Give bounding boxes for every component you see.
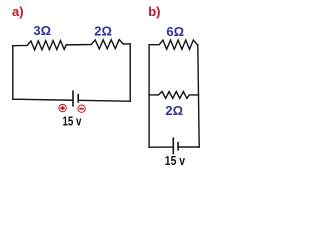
svg-text:15 v: 15 v: [63, 114, 82, 128]
svg-text:6Ω: 6Ω: [166, 24, 184, 39]
svg-text:2Ω: 2Ω: [165, 103, 183, 118]
svg-text:b): b): [148, 4, 160, 19]
svg-text:15 v: 15 v: [165, 154, 185, 166]
svg-text:a): a): [12, 4, 24, 19]
svg-text:3Ω: 3Ω: [33, 23, 51, 38]
svg-text:2Ω: 2Ω: [94, 23, 112, 38]
